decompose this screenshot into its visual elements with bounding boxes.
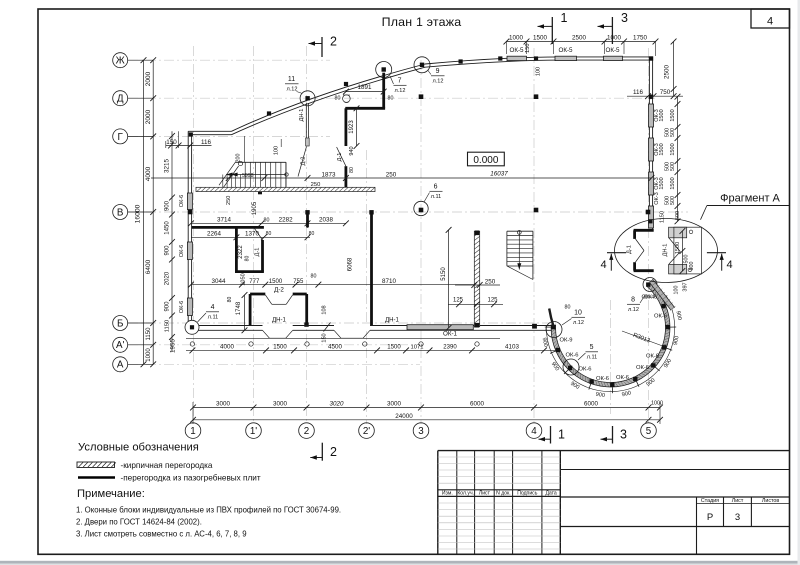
svg-text:80: 80 — [335, 96, 341, 102]
title block header row — [438, 489, 561, 491]
axis circle D — [113, 91, 128, 106]
svg-text:100: 100 — [674, 286, 680, 295]
mullion squares on curve — [267, 111, 271, 115]
interior wall vertical with door D-1 — [344, 108, 347, 146]
title block left table columns — [456, 451, 458, 554]
svg-text:ДН-1: ДН-1 — [663, 244, 669, 257]
axis circle G — [113, 129, 128, 144]
dim 1923 — [356, 108, 358, 146]
porch edge line — [186, 337, 500, 339]
svg-text:3714: 3714 — [217, 217, 231, 224]
axis circle 1 — [185, 423, 201, 439]
svg-text:4: 4 — [531, 426, 537, 437]
svg-text:л.12: л.12 — [287, 87, 298, 93]
section mark 4 left — [607, 252, 626, 254]
right exterior wall — [652, 57, 654, 229]
window OK-1 bottom — [407, 325, 473, 330]
svg-text:250: 250 — [311, 182, 321, 188]
svg-text:1500: 1500 — [670, 177, 676, 189]
svg-text:1071: 1071 — [411, 345, 424, 351]
partition left of D-2 — [249, 294, 252, 326]
svg-text:4: 4 — [767, 16, 773, 28]
svg-text:80: 80 — [388, 96, 394, 102]
svg-text:5150: 5150 — [441, 267, 447, 281]
fragment tambour rectangle — [674, 227, 702, 274]
svg-text:Подпись: Подпись — [517, 491, 538, 497]
svg-text:6: 6 — [434, 184, 438, 191]
axis circle A-prime — [113, 337, 128, 352]
svg-text:1: 1 — [558, 428, 565, 442]
interior wall horizontal — [345, 107, 385, 110]
svg-text:Д: Д — [117, 94, 124, 105]
door D-1 leaf upper — [337, 147, 346, 166]
dim 5150 vertical — [448, 230, 450, 328]
svg-text:397: 397 — [683, 282, 689, 291]
svg-text:Стадия: Стадия — [701, 498, 719, 504]
svg-text:ОК-6: ОК-6 — [616, 375, 629, 381]
svg-text:1750: 1750 — [633, 34, 647, 41]
svg-text:Условные обозначения: Условные обозначения — [78, 441, 199, 453]
stair opening edge line — [244, 136, 246, 162]
svg-text:1500: 1500 — [675, 242, 681, 254]
svg-text:Листов: Листов — [762, 498, 779, 504]
axis circle 3 — [413, 423, 429, 439]
svg-text:750: 750 — [660, 89, 671, 96]
fragment door DN-1 — [669, 238, 680, 252]
section mark 3 top — [611, 17, 613, 44]
detail circle 11 — [300, 91, 315, 106]
partition wall grid2 vertical — [306, 213, 309, 228]
svg-text:0.000: 0.000 — [473, 155, 498, 166]
svg-text:2020: 2020 — [165, 271, 171, 285]
svg-text:л.12: л.12 — [433, 79, 444, 85]
svg-text:80: 80 — [311, 274, 317, 280]
svg-text:2: 2 — [330, 35, 337, 49]
svg-text:ДН-1: ДН-1 — [272, 318, 286, 324]
dim 1891 — [346, 91, 384, 93]
svg-text:2282: 2282 — [279, 217, 293, 224]
partition below dims — [370, 212, 373, 227]
detail circle 9 — [414, 57, 430, 73]
svg-text:1905: 1905 — [252, 201, 258, 215]
svg-text:500: 500 — [670, 162, 676, 171]
svg-text:л.12: л.12 — [395, 88, 406, 94]
svg-text:Р: Р — [707, 512, 713, 523]
svg-text:1000: 1000 — [607, 34, 621, 41]
curved glass wall — [232, 57, 653, 131]
svg-text:л.11: л.11 — [587, 355, 598, 361]
svg-text:1873: 1873 — [322, 172, 336, 179]
detail circle 10 — [546, 322, 562, 338]
top dimension row — [506, 41, 655, 43]
long dimension line 16037 — [151, 177, 652, 179]
bottom total dimension 24000 — [193, 419, 660, 421]
small room left wall — [235, 227, 238, 271]
dim 125 125 partition — [448, 303, 503, 305]
detail circle 8 OK-4 — [643, 278, 657, 292]
svg-text:1': 1' — [250, 426, 257, 437]
svg-text:А': А' — [116, 340, 125, 351]
fragment walls — [634, 229, 654, 232]
svg-text:ОК-9: ОК-9 — [559, 338, 572, 344]
detail circle bottom-left wall — [185, 320, 199, 334]
svg-text:8710: 8710 — [382, 278, 396, 285]
svg-text:116: 116 — [633, 89, 643, 96]
svg-text:16000: 16000 — [135, 204, 142, 223]
svg-text:100: 100 — [536, 67, 542, 76]
svg-text:4: 4 — [211, 304, 215, 311]
fragment door jamb rects — [669, 227, 687, 238]
svg-text:Г: Г — [118, 132, 124, 143]
svg-text:16037: 16037 — [490, 170, 508, 177]
svg-text:ДН-1: ДН-1 — [299, 109, 305, 122]
svg-text:1370: 1370 — [245, 231, 259, 238]
corner column grid 5 — [649, 56, 653, 60]
svg-text:Д-2: Д-2 — [274, 287, 284, 294]
hatched brick partition vertical — [474, 231, 479, 326]
svg-text:1500: 1500 — [670, 109, 676, 121]
svg-text:1. Оконные блоки индивидуальны: 1. Оконные блоки индивидуальные из ПВХ п… — [76, 505, 341, 514]
svg-text:1050: 1050 — [241, 273, 247, 285]
dim row 3714 2282 2038 — [191, 222, 346, 224]
svg-text:Лист: Лист — [479, 491, 491, 497]
svg-text:80: 80 — [266, 231, 272, 237]
svg-text:2390: 2390 — [443, 345, 457, 351]
svg-text:2500: 2500 — [572, 34, 586, 41]
axis circle 2 — [299, 423, 315, 439]
svg-text:3: 3 — [621, 11, 628, 25]
svg-text:1500: 1500 — [387, 345, 401, 351]
svg-text:150: 150 — [525, 44, 531, 53]
door D-2 leaves — [265, 295, 272, 305]
left exterior wall — [187, 131, 189, 330]
detail circle 5 — [563, 359, 579, 375]
svg-text:А: А — [117, 360, 124, 371]
svg-text:777: 777 — [249, 279, 260, 285]
svg-text:л.11: л.11 — [431, 194, 442, 200]
svg-text:4000: 4000 — [145, 166, 152, 181]
svg-text:500: 500 — [689, 262, 695, 271]
round bay window wall arcs — [553, 284, 667, 384]
svg-text:Д-1: Д-1 — [337, 153, 343, 162]
svg-text:ОК-4: ОК-4 — [641, 295, 655, 301]
dim row 3044 777 1500 755 8710 — [191, 284, 477, 286]
svg-text:Д-2: Д-2 — [300, 157, 306, 166]
svg-text:3215: 3215 — [164, 159, 171, 173]
svg-text:116: 116 — [201, 139, 211, 146]
bay mullion squares — [551, 325, 555, 329]
svg-text:4: 4 — [726, 259, 732, 271]
svg-text:6068: 6068 — [348, 257, 354, 271]
svg-text:N док.: N док. — [496, 491, 511, 497]
svg-text:80: 80 — [264, 218, 270, 224]
svg-text:1500: 1500 — [670, 143, 676, 155]
svg-text:-кирпичная перегородка: -кирпичная перегородка — [121, 461, 213, 470]
svg-text:1450: 1450 — [165, 221, 171, 235]
svg-text:900: 900 — [165, 245, 171, 256]
svg-text:3: 3 — [735, 512, 740, 523]
svg-text:2038: 2038 — [319, 217, 333, 224]
level mark box 0.000 — [468, 152, 505, 166]
svg-text:л.12: л.12 — [573, 320, 584, 326]
svg-text:940: 940 — [349, 146, 355, 155]
svg-text:ОК-5: ОК-5 — [509, 47, 524, 54]
svg-text:2000: 2000 — [145, 71, 152, 86]
svg-text:250: 250 — [386, 172, 397, 179]
bay outer dim arc — [546, 295, 674, 391]
svg-text:250: 250 — [485, 278, 496, 285]
svg-text:ОК-6: ОК-6 — [179, 301, 185, 313]
svg-text:3044: 3044 — [212, 278, 226, 285]
svg-text:ОК-6: ОК-6 — [636, 365, 649, 371]
svg-text:125: 125 — [487, 298, 498, 304]
svg-text:1500: 1500 — [273, 345, 287, 351]
svg-text:1000: 1000 — [651, 401, 663, 407]
dim 2264 1370 — [191, 236, 310, 238]
svg-text:Кол.уч.: Кол.уч. — [457, 491, 474, 497]
svg-text:1: 1 — [190, 426, 195, 437]
svg-text:План 1 этажа: План 1 этажа — [382, 15, 462, 29]
svg-text:125: 125 — [453, 298, 464, 304]
staircase upper — [235, 161, 286, 163]
door DN-1 opening 2 — [334, 325, 370, 332]
svg-text:1500: 1500 — [659, 177, 665, 189]
axis circle 5 — [641, 423, 657, 439]
dim 250 partition — [455, 284, 500, 286]
svg-text:3: 3 — [620, 428, 627, 442]
door D-1 small room — [255, 229, 263, 241]
detail circle 6 — [414, 201, 428, 215]
wall break slash — [324, 323, 331, 332]
axis circle V — [113, 205, 128, 220]
stair diagonal cut center — [507, 266, 533, 280]
svg-text:1150: 1150 — [165, 320, 171, 332]
svg-text:1150: 1150 — [659, 211, 665, 223]
svg-text:ОК-6: ОК-6 — [179, 195, 185, 207]
svg-text:11: 11 — [288, 76, 295, 83]
svg-text:4: 4 — [600, 259, 606, 271]
grid axes dashed — [128, 46, 688, 424]
svg-text:1748: 1748 — [236, 301, 242, 315]
svg-text:3000: 3000 — [387, 401, 401, 408]
svg-text:5: 5 — [590, 344, 594, 351]
svg-text:2322: 2322 — [238, 245, 244, 259]
glass partition below curve with door DN-1 — [305, 103, 307, 146]
svg-text:10: 10 — [574, 310, 582, 317]
svg-text:80: 80 — [565, 305, 571, 311]
svg-text:2500: 2500 — [664, 65, 671, 79]
door D-2 at stair partition — [298, 147, 307, 177]
svg-text:3000: 3000 — [273, 401, 287, 408]
svg-text:250: 250 — [226, 196, 232, 205]
axis circle Zh — [113, 53, 128, 68]
bay wall start stub — [549, 309, 553, 327]
left wall window OK-6 middle — [187, 242, 192, 260]
vertical wall mid plan — [370, 227, 373, 326]
bay radial ticks — [545, 326, 551, 328]
axis circle A — [113, 357, 128, 372]
svg-text:3020: 3020 — [330, 401, 344, 408]
stadia list cells — [696, 497, 698, 554]
svg-text:ОК-5: ОК-5 — [605, 47, 620, 54]
left wall window OK-6 lower — [187, 298, 192, 316]
legend brick partition symbol — [77, 462, 115, 468]
svg-text:4500: 4500 — [328, 344, 342, 351]
left inner dimension chain — [171, 131, 173, 352]
svg-text:ОК-6: ОК-6 — [646, 354, 659, 360]
svg-text:4103: 4103 — [505, 344, 519, 351]
axis circle 4 — [526, 423, 542, 439]
svg-text:ДН-1: ДН-1 — [385, 318, 399, 324]
svg-text:ОК-6: ОК-6 — [596, 376, 609, 382]
svg-text:80: 80 — [244, 256, 250, 262]
svg-text:Примечание:: Примечание: — [77, 488, 145, 500]
svg-text:80: 80 — [227, 297, 233, 303]
svg-text:3: 3 — [418, 426, 424, 437]
fragment door D-1 — [636, 239, 645, 251]
svg-text:Изм.: Изм. — [442, 491, 453, 497]
legend plits partition symbol — [78, 476, 115, 479]
svg-text:500: 500 — [670, 128, 676, 137]
svg-text:6000: 6000 — [470, 401, 484, 408]
stair partial treads left — [222, 175, 224, 188]
section mark 2 top-left — [321, 37, 323, 57]
svg-text:ОК-6: ОК-6 — [565, 353, 578, 359]
right dim chain windows — [677, 97, 679, 222]
stair walk line center — [518, 231, 520, 270]
page number box — [751, 9, 790, 28]
svg-text:1500: 1500 — [533, 34, 547, 41]
svg-text:1500: 1500 — [269, 279, 283, 285]
svg-text:1891: 1891 — [358, 84, 372, 91]
partition right of D-2 — [305, 294, 308, 323]
svg-text:4000: 4000 — [220, 344, 234, 351]
freestanding columns grid — [419, 94, 424, 99]
svg-text:1150: 1150 — [146, 327, 152, 341]
svg-text:500: 500 — [670, 196, 676, 205]
right wall windows OK-3 — [649, 104, 654, 127]
section mark 1 top — [551, 17, 553, 44]
svg-text:108: 108 — [321, 305, 327, 314]
top straight wall windows OK-5 — [507, 56, 527, 60]
staircase center — [507, 230, 533, 232]
svg-text:Ж: Ж — [116, 56, 125, 67]
svg-text:1500: 1500 — [659, 109, 665, 121]
svg-text:Б: Б — [117, 318, 123, 329]
right top dims 2500 750 116 — [673, 42, 675, 97]
column at grid 1-V — [188, 210, 193, 215]
door D-2 walls — [250, 293, 265, 296]
small room right wall with door — [261, 240, 264, 272]
interior wall from circle 7 — [382, 73, 385, 109]
axis circle 2-prime — [359, 423, 375, 439]
door DN-1 opening 1 — [263, 325, 293, 332]
bay band hatch strokes — [551, 284, 670, 387]
svg-text:1: 1 — [561, 11, 568, 25]
svg-text:2: 2 — [304, 426, 309, 437]
svg-text:6400: 6400 — [145, 259, 152, 274]
svg-text:1000: 1000 — [509, 34, 523, 41]
svg-text:80: 80 — [309, 231, 315, 237]
svg-text:1923: 1923 — [349, 120, 355, 134]
svg-text:1000: 1000 — [146, 348, 152, 362]
svg-text:ОК-6: ОК-6 — [654, 314, 667, 320]
svg-text:24000: 24000 — [395, 413, 413, 420]
bay radius label R3013 — [622, 331, 665, 347]
section mark 4 right — [707, 252, 726, 254]
stair cut diagonals — [219, 162, 235, 185]
top-left corner dimension 150 116 — [166, 145, 212, 147]
svg-text:3. Лист смотреть совместно с л: 3. Лист смотреть совместно с л. АС-4, 6,… — [76, 529, 247, 538]
svg-text:2000: 2000 — [145, 109, 152, 124]
svg-text:Фрагмент А: Фрагмент А — [720, 193, 780, 205]
svg-text:Лист: Лист — [732, 498, 744, 504]
column at grid 4 bottom — [532, 324, 537, 329]
svg-text:900: 900 — [165, 301, 171, 312]
svg-text:9: 9 — [436, 68, 440, 75]
top wall of left block — [188, 130, 231, 132]
small room bottom wall — [235, 270, 264, 273]
junction square below hatch — [258, 190, 262, 194]
left dimension chain segments — [152, 60, 154, 364]
svg-text:2264: 2264 — [207, 231, 221, 238]
svg-text:100: 100 — [274, 146, 280, 155]
axis leader lines left — [128, 59, 154, 61]
bottom inner dim row 4000 1500 4500 — [186, 349, 560, 351]
bottom exterior wall — [188, 325, 553, 327]
svg-text:Дата: Дата — [545, 491, 556, 497]
svg-text:-перегородка из пазогребневых: -перегородка из пазогребневых плит — [121, 473, 261, 482]
title block left table thin rows — [438, 457, 561, 549]
svg-text:500: 500 — [675, 211, 681, 220]
svg-text:ОК-1: ОК-1 — [443, 330, 458, 337]
detail circle 7 — [376, 62, 392, 78]
svg-text:ОК-5: ОК-5 — [558, 47, 573, 54]
svg-text:2': 2' — [363, 426, 370, 437]
svg-text:л.12: л.12 — [628, 307, 639, 313]
svg-text:5: 5 — [646, 426, 652, 437]
section mark 3 bottom — [612, 426, 614, 444]
interior wall top of small room — [192, 226, 264, 229]
svg-text:Д-1: Д-1 — [254, 248, 260, 257]
svg-text:900: 900 — [165, 200, 171, 211]
left wall window OK-6 upper — [187, 193, 192, 210]
svg-text:1955: 1955 — [170, 339, 177, 353]
svg-text:7: 7 — [398, 78, 402, 85]
bottom dimension row segments — [193, 407, 660, 409]
slanted hatched window OK-4 — [652, 281, 673, 309]
svg-text:150: 150 — [166, 139, 177, 146]
svg-text:2: 2 — [330, 445, 337, 459]
svg-text:ОК-3: ОК-3 — [654, 192, 660, 204]
svg-text:80: 80 — [349, 167, 355, 173]
svg-text:ОК-6: ОК-6 — [578, 367, 591, 373]
hatched brick partition horizontal — [196, 187, 375, 191]
axis circle B — [113, 316, 128, 331]
section mark 1 bottom — [550, 426, 552, 444]
svg-text:ОК-6: ОК-6 — [179, 245, 185, 257]
section mark 2 bottom-left — [321, 443, 323, 461]
svg-text:8: 8 — [631, 297, 635, 304]
svg-text:2. Двери по ГОСТ 14624-84 (20: 2. Двери по ГОСТ 14624-84 (2002). — [76, 517, 202, 526]
fragment A ellipse — [615, 219, 718, 283]
left dimension chain outer 16000 — [143, 60, 145, 364]
svg-text:1500: 1500 — [659, 143, 665, 155]
svg-text:3000: 3000 — [216, 401, 230, 408]
small detail circle — [343, 95, 351, 103]
svg-text:755: 755 — [293, 279, 304, 285]
svg-text:Д-1: Д-1 — [627, 245, 633, 254]
